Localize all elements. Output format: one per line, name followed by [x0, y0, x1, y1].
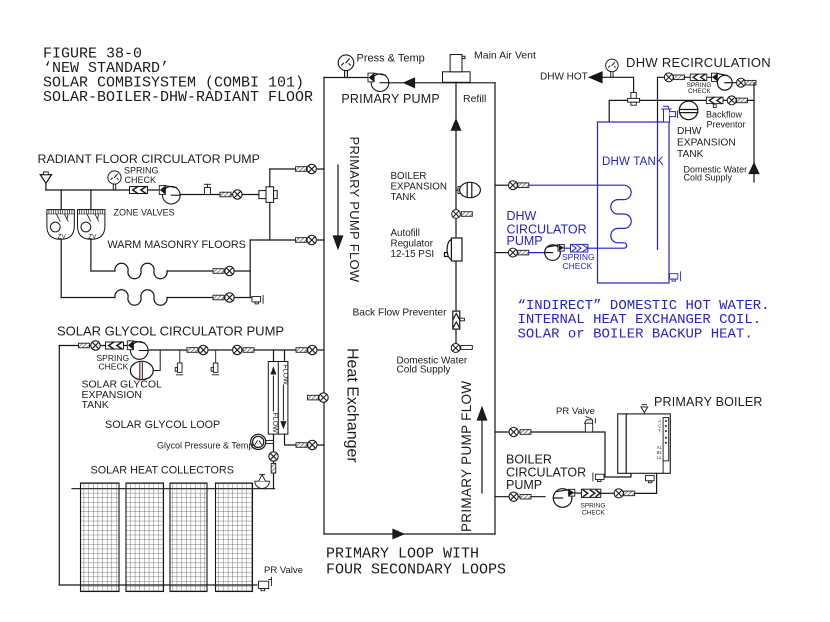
- pipe + valve + stub to boiler bottom: [601, 473, 657, 498]
- svg-text:SOLAR HEAT COLLECTORS: SOLAR HEAT COLLECTORS: [91, 465, 234, 477]
- svg-text:FLOW: FLOW: [271, 413, 278, 434]
- svg-text:CHECK: CHECK: [125, 175, 157, 185]
- svg-text:PRIMARY PUMP FLOW: PRIMARY PUMP FLOW: [459, 381, 474, 532]
- solar collector panel 3: [170, 483, 207, 592]
- pipe: return riser: [249, 240, 251, 298]
- svg-text:Heat Exchanger: Heat Exchanger: [344, 348, 361, 463]
- svg-text:12-15 PSI: 12-15 PSI: [391, 249, 435, 260]
- pipe: solar return from flowmeter to loop: [285, 434, 325, 445]
- pipe: primary loop left edge: [323, 78, 325, 535]
- vertical hatched stub on collector feed: [271, 463, 276, 473]
- pipe: zone valve drop 2: [90, 190, 92, 210]
- stub + valve on coil 1 return: [213, 266, 234, 275]
- svg-text:TANK: TANK: [391, 192, 417, 203]
- svg-text:SOLAR GLYCOL LOOP: SOLAR GLYCOL LOOP: [105, 419, 220, 431]
- svg-text:Backflow: Backflow: [706, 110, 743, 120]
- pipe: under-boiler run: [605, 473, 631, 477]
- svg-text:ZV: ZV: [88, 233, 97, 240]
- svg-text:Glycol Pressure & Temp.: Glycol Pressure & Temp.: [157, 441, 256, 451]
- dip tube inside tank: [657, 122, 659, 250]
- pipe: coil 1 to return riser: [234, 270, 250, 272]
- blue annotation text: [518, 298, 770, 343]
- svg-text:Regulator: Regulator: [391, 239, 434, 250]
- flow arrow right on bottom line: [393, 529, 404, 538]
- stub + valve on coil 2 return: [213, 293, 234, 302]
- arrow: DHW HOT outflow: [590, 72, 603, 83]
- spring check (boiler): [575, 489, 601, 497]
- svg-text:Cold Supply: Cold Supply: [684, 172, 733, 182]
- solar collector panel 4: [216, 483, 253, 592]
- solar collector panel 2: [126, 483, 164, 592]
- pump: boiler circulator: [553, 489, 575, 508]
- pipe: primary loop top right segment: [389, 82, 495, 84]
- pipe: tank hot riser: [609, 100, 627, 122]
- pipe: radiant return header: [250, 239, 324, 241]
- svg-text:SOLAR-BOILER-DHW-RADIANT FLOOR: SOLAR-BOILER-DHW-RADIANT FLOOR: [43, 89, 313, 106]
- pipe: below flow meter to collectors: [273, 434, 275, 489]
- boiler drain at radiant return: [252, 295, 263, 304]
- boiler drain on return riser: [646, 474, 657, 483]
- back flow preventer symbol: [453, 311, 465, 329]
- spring check (DHW, blue): [564, 244, 597, 252]
- DHW expansion tank symbol: [679, 101, 698, 120]
- spring check (backflow line): [706, 97, 723, 107]
- pipe: solar line after pump: [149, 349, 324, 351]
- svg-text:Press & Temp: Press & Temp: [357, 53, 425, 65]
- flow meter sight glass: [268, 362, 288, 435]
- svg-text:T: T: [658, 429, 661, 434]
- pipe: flow meter risers: [273, 350, 275, 362]
- stub + valve solar supply at primary loop: [296, 345, 317, 354]
- svg-text:DHW: DHW: [507, 209, 537, 223]
- pipe: solar supply line (left of pump): [59, 345, 127, 347]
- air funnel on collector header: [255, 475, 270, 489]
- svg-text:TANK: TANK: [677, 149, 704, 160]
- flow arrow up on refill line: [451, 120, 460, 131]
- svg-text:DHW: DHW: [677, 126, 702, 137]
- pipe: boiler return line: [495, 496, 545, 498]
- stub on recirc line: [674, 75, 685, 80]
- stub + valve on radiant pump line: [220, 190, 242, 199]
- svg-text:EXPANSION: EXPANSION: [391, 182, 447, 193]
- pump: DHW recirculator: [712, 73, 733, 90]
- valve + stub after recirc pump: [732, 78, 756, 99]
- svg-text:Main Air Vent: Main Air Vent: [474, 49, 536, 61]
- pump: solar glycol circulator: [127, 341, 148, 359]
- pipe: boiler supply from loop: [495, 432, 605, 477]
- svg-text:PUMP: PUMP: [507, 234, 543, 248]
- pipe: collector bottom header: [59, 584, 257, 586]
- valve + stub on solar line (mid 2): [233, 345, 255, 354]
- gauge on radiant supply: [108, 171, 121, 190]
- valve + stub DHW return: [508, 248, 528, 257]
- air vent funnel on radiant supply: [40, 172, 51, 190]
- pipe: ZV1 down to floor coil 2: [60, 239, 62, 297]
- svg-text:ZONE VALVES: ZONE VALVES: [114, 208, 175, 218]
- svg-text:RADIANT FLOOR CIRCULATOR PUMP: RADIANT FLOOR CIRCULATOR PUMP: [38, 152, 260, 166]
- main air vent body: [443, 55, 471, 83]
- stub + valve solar return at loop: [296, 440, 317, 449]
- drain symbol hanging below solar line 2: [211, 350, 219, 375]
- svg-text:TANK: TANK: [82, 399, 109, 411]
- pipe: backflow preventer line: [640, 99, 754, 101]
- DHW tank (blue): [598, 106, 681, 283]
- valve + stub DHW supply: [508, 181, 528, 190]
- pipe: radiant loop supply to primary loop: [270, 168, 324, 170]
- pipe: recirculation line: [658, 77, 665, 122]
- svg-text:PRIMARY BOILER: PRIMARY BOILER: [654, 395, 763, 409]
- floor coil 2 (warm masonry floor): [115, 290, 167, 305]
- arrow: cold supply up: [749, 163, 759, 173]
- svg-text:PRIMARY PUMP: PRIMARY PUMP: [341, 92, 440, 106]
- tank drain (blue): [670, 272, 681, 281]
- svg-text:DHW HOT: DHW HOT: [540, 72, 588, 83]
- small air vent valve above line: [204, 184, 210, 194]
- air vent funnel on boiler top: [641, 405, 648, 414]
- pipe: coil 1 leads: [91, 270, 115, 272]
- pipe: radiant supply riser: [269, 169, 271, 187]
- svg-text:L1: L1: [657, 455, 662, 460]
- primary boiler body: [618, 414, 671, 473]
- union fitting on DHW hot drop: [628, 92, 640, 105]
- valve on collector feed: [269, 452, 278, 461]
- svg-text:SOLAR or BOILER BACKUP HEAT.: SOLAR or BOILER BACKUP HEAT.: [518, 327, 753, 343]
- svg-text:CHECK: CHECK: [99, 362, 129, 372]
- stub + valve radiant return: [296, 235, 317, 244]
- svg-text:WARM MASONRY FLOORS: WARM MASONRY FLOORS: [108, 239, 246, 251]
- relief valve on tank top (blue): [662, 106, 678, 122]
- boiler drain on supply pipe: [593, 473, 604, 482]
- PR valve symbol at collector header: [259, 577, 272, 591]
- svg-text:Preventor: Preventor: [707, 120, 746, 130]
- pipe: DHW supply from primary loop: [495, 184, 509, 186]
- pipe: radiant pump outlet to tee: [180, 194, 266, 196]
- stub + valve on solar line (mid 1): [187, 345, 208, 354]
- svg-text:ZV: ZV: [58, 233, 67, 240]
- valve + stub boiler return: [509, 492, 531, 501]
- svg-text:PR Valve: PR Valve: [264, 565, 303, 576]
- valve: domestic water cold supply feed: [451, 344, 472, 353]
- svg-text:BOILER: BOILER: [506, 453, 552, 467]
- pipe: zone valve drop 1: [60, 190, 62, 210]
- pipe: collector top header: [72, 488, 275, 490]
- svg-text:PR Valve: PR Valve: [556, 406, 595, 417]
- pipe: DHW supply blue run: [529, 184, 598, 186]
- internal heat exchanger coil (blue): [598, 185, 632, 248]
- pump: radiant floor circulator: [159, 186, 180, 204]
- purge valve on primary loop left edge: [308, 393, 329, 402]
- flow arrow left on top line: [404, 78, 415, 87]
- PR valve symbol on boiler supply: [585, 417, 596, 433]
- flow arrow down (left column): [333, 165, 342, 249]
- pipe: refill line: [455, 82, 457, 343]
- svg-text:SOLAR GLYCOL CIRCULATOR PUMP: SOLAR GLYCOL CIRCULATOR PUMP: [57, 324, 284, 339]
- svg-text:FLOW: FLOW: [282, 365, 289, 386]
- svg-text:DHW RECIRCULATION: DHW RECIRCULATION: [626, 55, 771, 70]
- pipe: ZV2 down to floor coil 1: [90, 239, 92, 271]
- pipe: recirc to spring check: [685, 76, 713, 78]
- pipe: primary loop top left segment: [324, 77, 368, 79]
- zone valve ZV2: [78, 210, 105, 241]
- pipe: coil 2 leads: [61, 297, 115, 299]
- svg-text:CHECK: CHECK: [688, 88, 711, 95]
- pipe: domestic cold water supply riser: [753, 100, 755, 182]
- spring check valve (radiant): [130, 187, 148, 194]
- autofill regulator symbol: [445, 238, 463, 261]
- pump U1: primary pump: [368, 73, 389, 91]
- svg-text:CHECK: CHECK: [563, 261, 593, 271]
- valve + stub on backflow line: [727, 96, 747, 105]
- svg-text:INTERNAL HEAT EXCHANGER COIL.: INTERNAL HEAT EXCHANGER COIL.: [518, 312, 762, 328]
- svg-text:CHECK: CHECK: [582, 509, 605, 516]
- pipe: radiant supply manifold: [46, 189, 160, 191]
- pipe: primary loop right edge: [494, 83, 496, 534]
- svg-text:PRIMARY PUMP FLOW: PRIMARY PUMP FLOW: [347, 137, 362, 283]
- pipe: coil 2 to drain: [234, 297, 252, 299]
- glycol gauge: [251, 434, 274, 449]
- svg-text:Cold Supply: Cold Supply: [397, 365, 451, 376]
- flow arrow up (right column): [477, 408, 486, 494]
- svg-text:Autofill: Autofill: [391, 228, 420, 239]
- boiler expansion tank symbol: [456, 182, 480, 197]
- svg-text:BOILER: BOILER: [391, 171, 427, 182]
- svg-text:EXPANSION: EXPANSION: [677, 138, 736, 149]
- stub + valve on solar supply: [79, 341, 101, 350]
- drain symbol hanging below solar line 1: [175, 350, 183, 375]
- solar collector panel 1: [81, 483, 120, 592]
- floor coil 1 (warm masonry floor): [115, 263, 167, 278]
- valve on refill line below expansion tank: [452, 210, 473, 219]
- closely spaced tees fitting: [259, 187, 277, 203]
- valve on recirc line: [664, 73, 673, 82]
- gauge: press & temp: [338, 55, 354, 78]
- spring check (recirc): [690, 74, 707, 80]
- stub + valve radiant supply: [296, 164, 317, 173]
- pipe: solar left riser: [58, 346, 60, 586]
- pipe: primary loop bottom edge: [324, 533, 495, 535]
- svg-text:Back Flow Preventer: Back Flow Preventer: [353, 308, 448, 319]
- gauge on DHW hot: [606, 59, 619, 77]
- pipe: DHW return from loop: [495, 252, 509, 254]
- zone valve ZV1: [47, 210, 74, 241]
- svg-text:DHW TANK: DHW TANK: [602, 156, 664, 168]
- svg-text:PRIMARY LOOP WITH: PRIMARY LOOP WITH: [326, 546, 479, 563]
- svg-text:PUMP: PUMP: [506, 478, 542, 492]
- spring check valve (solar): [106, 342, 124, 349]
- pump: DHW circulator: [545, 245, 565, 261]
- pipe: DHW hot line: [601, 77, 634, 92]
- valve + stub boiler supply: [509, 427, 531, 436]
- svg-text:Refill: Refill: [463, 93, 486, 105]
- svg-text:FOUR SECONDARY LOOPS: FOUR SECONDARY LOOPS: [326, 562, 506, 579]
- solar glycol expansion tank: [130, 350, 160, 380]
- pipe: DHW return blue run to pump: [529, 252, 545, 254]
